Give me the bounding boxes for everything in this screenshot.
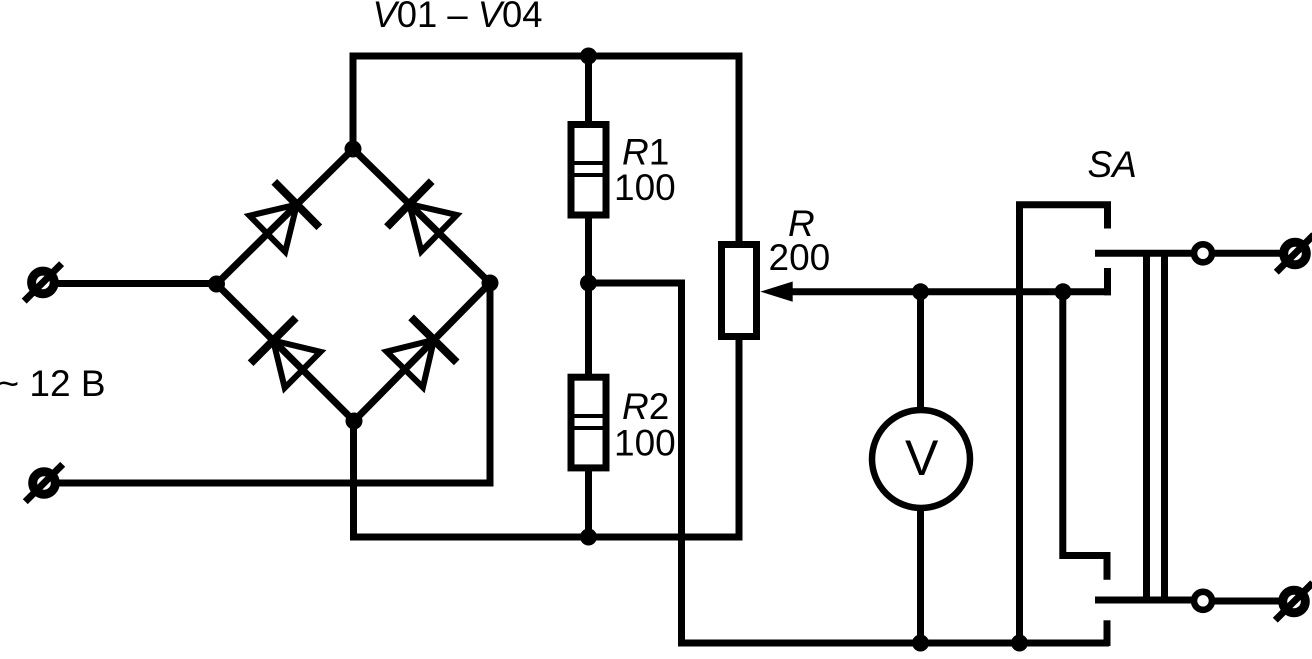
wire voltmeter top lead: [917, 292, 924, 412]
switch SA bottom pole lead from wiper wire: [1063, 292, 1107, 580]
wire AC input bottom to bridge right vertex: [58, 283, 490, 483]
node wiper wire / switch branch: [1055, 283, 1072, 300]
switch SA mechanical link line 2: [1161, 253, 1168, 600]
svg-text:200: 200: [769, 237, 831, 278]
switch SA top pole lower stub: [1104, 268, 1111, 295]
node bottom rail / voltmeter: [912, 635, 929, 652]
potentiometer R body: [722, 245, 757, 337]
wire R1/R2 branch vertical: [585, 56, 592, 537]
terminal output bottom: [1283, 590, 1306, 613]
diode V01 cathode bar: [274, 182, 319, 228]
diode V03 (triangle): [273, 341, 320, 388]
wire SA bottom circle to output terminal: [1214, 598, 1280, 605]
node bridge bottom vertex: [346, 413, 363, 430]
wire top rail from bridge top vertex to potentiometer branch: [353, 56, 739, 241]
wire from mid junction right and down to bottom rail: [589, 283, 1110, 643]
node top rail / R1: [580, 48, 597, 65]
resistor R2 inner band lines: [570, 414, 607, 418]
node bridge left vertex: [208, 276, 225, 293]
terminal input top: [32, 271, 55, 294]
terminal output top: [1284, 242, 1307, 265]
wire voltmeter bottom lead: [917, 506, 924, 643]
switch SA bottom pole lower stub: [1104, 620, 1111, 646]
node bridge top vertex: [345, 141, 362, 158]
resistor R2 body: [571, 377, 606, 468]
voltmeter PV1 circle: [872, 410, 970, 508]
wire SA top circle to output terminal: [1214, 250, 1281, 257]
resistor R1 inner band lines: [570, 161, 607, 165]
diode V03 cathode bar: [251, 318, 296, 363]
resistor R1 body: [571, 125, 606, 216]
svg-text:R2: R2: [622, 386, 669, 427]
switch SA frame bracket: [1020, 205, 1108, 643]
switch SA top pole contact bar: [1095, 250, 1193, 257]
switch SA bottom pole contact bar: [1095, 597, 1193, 604]
switch SA mechanical link line 1: [1143, 253, 1150, 600]
bridge diamond edge bottom-right: [354, 283, 490, 421]
svg-text:V01 – V04: V01 – V04: [373, 0, 543, 35]
diode V02 cathode bar: [387, 181, 432, 227]
switch SA bottom output contact circle: [1194, 592, 1212, 610]
svg-text:V: V: [905, 430, 939, 486]
svg-text:~ 12 В: ~ 12 В: [0, 363, 106, 404]
wire wiper to switch: [791, 288, 1111, 295]
svg-text:100: 100: [614, 167, 676, 208]
wire AC input top: [57, 280, 217, 287]
bridge diamond edge left-bottom: [217, 284, 355, 421]
switch SA top output contact circle: [1194, 244, 1212, 262]
node bottom rail / switch frame: [1011, 635, 1028, 652]
diode V04 cathode bar: [411, 317, 457, 362]
svg-text:100: 100: [614, 423, 676, 464]
node bridge right vertex: [482, 275, 499, 292]
diode V02 (triangle): [409, 204, 457, 251]
wire bridge bottom vertex to lower-left rail to pot bottom: [354, 340, 740, 537]
node wiper wire / voltmeter top: [912, 283, 929, 300]
bridge diamond edge top-right: [353, 149, 490, 283]
diode V01 (triangle): [250, 205, 297, 252]
potentiometer wiper arrow: [760, 282, 792, 302]
node R2 bottom rail: [580, 529, 597, 546]
svg-text:SA: SA: [1088, 144, 1137, 185]
terminal input bottom: [33, 472, 56, 495]
bridge diamond edge left-top: [217, 149, 354, 284]
node R1-R2 mid: [580, 275, 597, 292]
diode V04 (triangle): [387, 340, 434, 387]
